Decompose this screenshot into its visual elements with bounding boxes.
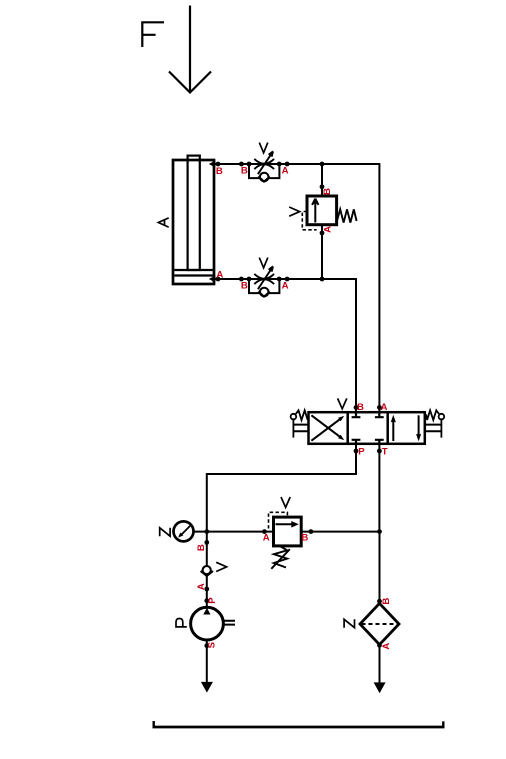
node valve port A [377, 405, 382, 410]
node filter port A [377, 643, 382, 648]
relief valve V1 (counterbalance, top right) [289, 196, 356, 230]
tank baseline bracket [153, 726, 445, 729]
tank arrow (filter drain) [374, 682, 386, 693]
label A (cylinder), rotated [158, 218, 168, 227]
svg-text:P: P [358, 446, 365, 457]
body [309, 412, 425, 444]
pilot dashed line [269, 512, 288, 528]
svg-text:A: A [381, 402, 388, 413]
drive shaft [223, 621, 235, 625]
label Z rotated [160, 528, 170, 536]
label V [281, 497, 290, 507]
check valve seat [258, 291, 269, 296]
bypass line [249, 279, 279, 293]
svg-text:B: B [322, 188, 333, 195]
svg-text:A: A [216, 269, 223, 280]
directional valve V (4/3) [291, 398, 445, 443]
spring [337, 209, 357, 222]
svg-text:B: B [241, 280, 248, 291]
node relief valve V1 port A [320, 231, 325, 236]
wire P branch: valve P down, left, down to pump junction [207, 443, 356, 531]
node flow valve V1 port B [239, 162, 244, 167]
flow control valve V1 (top) [249, 143, 279, 182]
force arrow F [169, 6, 211, 93]
svg-text:P: P [207, 597, 218, 604]
junction V1 bypass right [277, 162, 282, 167]
svg-text:B: B [216, 166, 223, 177]
node pump port S [204, 643, 209, 648]
wire gauge line [194, 531, 380, 533]
label V [338, 398, 347, 408]
adjust arrow [258, 151, 273, 174]
wire T branch: valve T down to tank junction [378, 443, 380, 531]
node cylinder port A [216, 277, 221, 282]
middle cell blocked ports [352, 412, 361, 417]
svg-text:B: B [381, 598, 392, 605]
wire relief branch V1 vertical [321, 164, 323, 279]
label V [259, 143, 268, 153]
node check valve port A [204, 587, 209, 592]
wire top rail B-side: cylinder B to valve A-port column [214, 164, 379, 413]
label V [259, 258, 268, 268]
pilot dashed line [302, 212, 316, 230]
flow control valve V2 (bottom) [249, 258, 279, 297]
junction bottom rail / relief V1 A [320, 277, 325, 282]
pressure gauge Z [160, 521, 194, 541]
svg-text:S: S [207, 641, 218, 648]
junction pump line / gauge line [204, 529, 209, 534]
node flow valve V1 port A [285, 162, 290, 167]
node flow valve V2 port B [239, 277, 244, 282]
filter Z [344, 603, 399, 644]
node relief valve V2 port B [309, 529, 314, 534]
bypass line [249, 164, 279, 178]
right cell down arrow [418, 415, 420, 435]
junction top rail / relief V1 B [320, 162, 325, 167]
right actuator knob [439, 414, 445, 420]
right spring [426, 410, 439, 420]
svg-text:B: B [196, 544, 207, 551]
spring [274, 546, 287, 568]
cylinder port arrow B [209, 161, 216, 168]
svg-text:A: A [282, 280, 289, 291]
flow arrow [276, 523, 294, 525]
svg-text:B: B [301, 532, 308, 543]
label F [142, 22, 164, 47]
valve body [274, 517, 302, 546]
cylinder port arrow A [209, 276, 216, 283]
right cell up arrow [392, 421, 394, 441]
svg-text:B: B [241, 165, 248, 176]
throttle arcs [254, 274, 274, 284]
check valve ball [260, 288, 269, 297]
left cell crossed arrows [311, 419, 339, 440]
svg-text:B: B [357, 402, 364, 413]
left spring [296, 410, 309, 420]
throttle arcs [254, 159, 274, 169]
node valve port T [377, 449, 382, 454]
junction V2 bypass right [277, 277, 282, 282]
junction tank line / gauge line [377, 529, 382, 534]
node flow valve V2 port A [285, 277, 290, 282]
label P rotated [176, 619, 187, 627]
svg-text:A: A [381, 643, 392, 650]
left actuator knob [291, 414, 297, 420]
check valve V (pump line) [201, 562, 227, 576]
svg-text:A: A [282, 165, 289, 176]
label V rotated [216, 562, 226, 571]
node pump port P [204, 598, 209, 603]
valve body [307, 196, 337, 225]
node check valve port B [204, 540, 209, 545]
relief valve V2 (system, bottom) [269, 497, 302, 569]
svg-text:T: T [382, 446, 388, 457]
node valve port P [354, 449, 359, 454]
wire pump column [206, 532, 208, 682]
node relief valve V2 port A [262, 529, 267, 534]
node cylinder port B [216, 162, 221, 167]
svg-text:A: A [196, 583, 207, 590]
svg-text:A: A [263, 532, 270, 543]
adjust arrow [258, 266, 273, 289]
node valve port B [354, 405, 359, 410]
node relief valve V1 port B [320, 184, 325, 189]
cylinder A (double acting) [173, 156, 214, 284]
wire filter column [379, 532, 381, 683]
check valve ball [260, 173, 269, 182]
label Z rotated [344, 619, 354, 627]
svg-text:A: A [323, 226, 334, 233]
check valve seat [258, 176, 269, 181]
tank arrow (pump suction) [201, 682, 213, 693]
junction V2 bypass left [247, 277, 252, 282]
node filter port B [377, 599, 382, 604]
junction V1 bypass left [247, 162, 252, 167]
flow arrow [312, 199, 318, 223]
pump P [176, 607, 235, 640]
wire bottom rail A-side: cylinder A to valve B-port column [214, 279, 356, 413]
label V rotated [289, 207, 299, 216]
